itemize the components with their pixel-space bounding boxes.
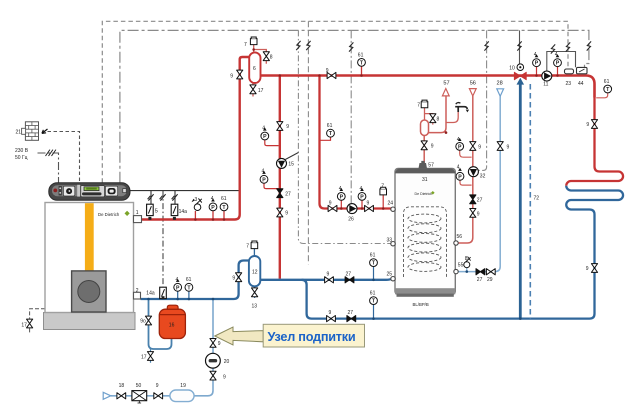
svg-text:9o: 9o bbox=[140, 319, 146, 325]
svg-text:9: 9 bbox=[329, 200, 332, 206]
svg-text:61: 61 bbox=[370, 290, 376, 296]
svg-text:4: 4 bbox=[360, 186, 363, 192]
svg-text:9: 9 bbox=[586, 122, 589, 128]
svg-text:61: 61 bbox=[604, 79, 610, 85]
svg-text:4: 4 bbox=[457, 164, 460, 170]
svg-text:17: 17 bbox=[258, 88, 264, 94]
svg-text:57: 57 bbox=[443, 80, 449, 86]
svg-text:De Dietrich: De Dietrich bbox=[98, 212, 120, 217]
svg-text:16: 16 bbox=[169, 323, 175, 329]
svg-text:9: 9 bbox=[327, 271, 330, 277]
svg-text:14a: 14a bbox=[179, 209, 188, 215]
svg-text:BL/BP/B: BL/BP/B bbox=[413, 302, 429, 307]
svg-text:4: 4 bbox=[457, 137, 460, 143]
svg-text:21: 21 bbox=[16, 130, 22, 136]
svg-text:14a: 14a bbox=[146, 291, 155, 297]
svg-text:20: 20 bbox=[224, 359, 230, 365]
svg-text:8: 8 bbox=[437, 117, 440, 123]
svg-text:10: 10 bbox=[509, 66, 515, 72]
svg-text:2: 2 bbox=[136, 288, 139, 294]
svg-text:9: 9 bbox=[156, 383, 159, 389]
svg-text:26: 26 bbox=[348, 216, 354, 222]
svg-text:23: 23 bbox=[566, 81, 572, 87]
svg-text:9: 9 bbox=[367, 200, 370, 206]
svg-text:230 В: 230 В bbox=[15, 148, 29, 154]
svg-text:4: 4 bbox=[262, 125, 265, 131]
svg-text:4: 4 bbox=[211, 196, 214, 202]
svg-text:50: 50 bbox=[136, 383, 142, 389]
svg-text:27: 27 bbox=[346, 271, 352, 277]
svg-text:11: 11 bbox=[543, 82, 548, 88]
svg-text:19: 19 bbox=[180, 383, 186, 389]
svg-text:31: 31 bbox=[422, 177, 428, 183]
svg-text:61: 61 bbox=[370, 252, 376, 258]
svg-text:3: 3 bbox=[195, 197, 198, 203]
svg-text:4: 4 bbox=[339, 186, 342, 192]
svg-text:9: 9 bbox=[431, 144, 434, 150]
svg-text:50 Гц: 50 Гц bbox=[15, 155, 28, 161]
svg-text:6: 6 bbox=[253, 66, 256, 72]
svg-text:9: 9 bbox=[477, 211, 480, 217]
svg-text:33: 33 bbox=[387, 237, 393, 243]
svg-text:9: 9 bbox=[326, 68, 329, 74]
svg-text:9: 9 bbox=[478, 144, 481, 150]
svg-text:9: 9 bbox=[285, 211, 288, 217]
svg-text:56: 56 bbox=[457, 234, 463, 240]
svg-text:7: 7 bbox=[246, 244, 249, 250]
svg-text:61: 61 bbox=[327, 123, 333, 129]
svg-text:9: 9 bbox=[507, 144, 510, 150]
svg-text:Узел подпитки: Узел подпитки bbox=[268, 330, 356, 344]
svg-text:4: 4 bbox=[262, 169, 265, 175]
svg-text:27: 27 bbox=[285, 191, 291, 197]
svg-text:12: 12 bbox=[252, 270, 258, 276]
svg-text:9: 9 bbox=[286, 124, 289, 130]
svg-text:32: 32 bbox=[480, 174, 486, 180]
svg-text:9: 9 bbox=[230, 73, 233, 79]
svg-text:55: 55 bbox=[458, 263, 464, 269]
svg-text:18: 18 bbox=[119, 383, 125, 389]
svg-text:61: 61 bbox=[358, 52, 364, 58]
svg-text:7: 7 bbox=[244, 42, 247, 48]
svg-text:8: 8 bbox=[465, 256, 468, 262]
svg-text:13: 13 bbox=[252, 303, 258, 309]
svg-text:1: 1 bbox=[136, 210, 139, 216]
svg-text:56: 56 bbox=[470, 80, 476, 86]
svg-text:27: 27 bbox=[477, 277, 483, 283]
svg-text:28: 28 bbox=[497, 80, 503, 86]
svg-text:9: 9 bbox=[218, 341, 221, 347]
svg-text:9: 9 bbox=[329, 310, 332, 316]
svg-text:29: 29 bbox=[487, 277, 493, 283]
svg-text:De Dietrich: De Dietrich bbox=[415, 192, 433, 196]
svg-text:72: 72 bbox=[534, 196, 540, 202]
svg-text:4: 4 bbox=[176, 277, 179, 283]
svg-text:5: 5 bbox=[155, 208, 158, 214]
svg-text:9: 9 bbox=[223, 374, 226, 380]
svg-text:4: 4 bbox=[534, 52, 537, 58]
svg-text:7: 7 bbox=[381, 184, 384, 190]
svg-text:57: 57 bbox=[428, 162, 434, 168]
svg-text:8: 8 bbox=[270, 55, 273, 61]
svg-text:15: 15 bbox=[288, 161, 294, 167]
svg-text:17: 17 bbox=[21, 323, 27, 329]
svg-text:7: 7 bbox=[417, 103, 420, 109]
svg-text:27: 27 bbox=[477, 198, 483, 204]
svg-text:9: 9 bbox=[232, 276, 235, 282]
svg-text:17: 17 bbox=[141, 354, 147, 360]
svg-text:61: 61 bbox=[186, 277, 192, 283]
svg-text:61: 61 bbox=[221, 196, 227, 202]
svg-text:9: 9 bbox=[586, 266, 589, 272]
svg-text:25: 25 bbox=[387, 272, 393, 278]
svg-text:4: 4 bbox=[555, 52, 558, 58]
svg-text:24: 24 bbox=[388, 201, 394, 207]
svg-text:44: 44 bbox=[578, 81, 584, 87]
svg-text:27: 27 bbox=[348, 310, 354, 316]
